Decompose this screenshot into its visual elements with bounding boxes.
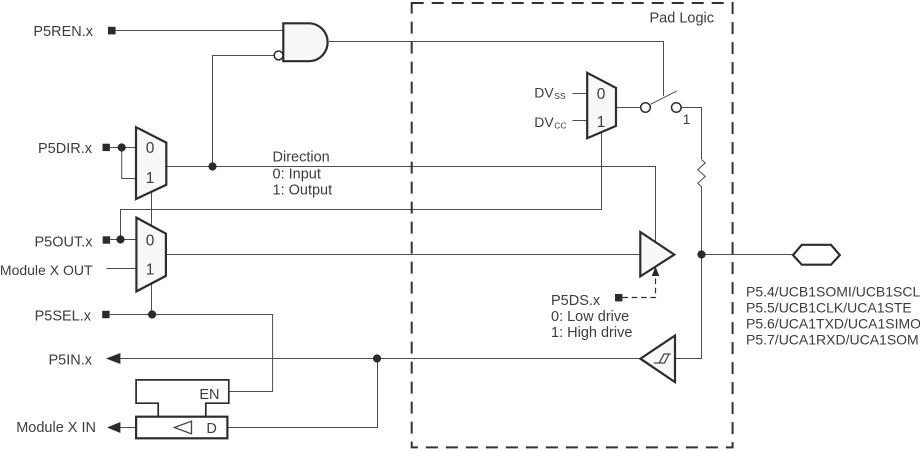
svg-text:P5DS.x: P5DS.x bbox=[551, 293, 601, 309]
svg-text:EN: EN bbox=[199, 387, 219, 403]
svg-text:P5.5/UCB1CLK/UCA1STE: P5.5/UCB1CLK/UCA1STE bbox=[746, 300, 912, 316]
svg-text:P5.4/UCB1SOMI/UCB1SCL: P5.4/UCB1SOMI/UCB1SCL bbox=[746, 284, 920, 300]
svg-text:P5OUT.x: P5OUT.x bbox=[34, 234, 93, 250]
svg-text:Module X OUT: Module X OUT bbox=[0, 262, 93, 278]
svg-text:DV: DV bbox=[534, 85, 554, 101]
svg-text:P5SEL.x: P5SEL.x bbox=[35, 308, 92, 324]
svg-text:DV: DV bbox=[534, 114, 554, 130]
svg-text:P5.7/UCA1RXD/UCA1SOMI: P5.7/UCA1RXD/UCA1SOMI bbox=[746, 332, 920, 348]
svg-text:1: 1 bbox=[683, 111, 691, 127]
svg-text:Module X IN: Module X IN bbox=[16, 420, 96, 436]
svg-text:1: 1 bbox=[597, 114, 606, 131]
svg-text:1: 1 bbox=[146, 262, 155, 279]
svg-text:D: D bbox=[206, 421, 216, 437]
svg-text:0: 0 bbox=[146, 140, 155, 157]
svg-text:SS: SS bbox=[554, 91, 566, 101]
svg-text:Direction: Direction bbox=[273, 150, 330, 166]
svg-text:P5REN.x: P5REN.x bbox=[33, 24, 93, 40]
svg-text:Pad Logic: Pad Logic bbox=[650, 10, 715, 26]
svg-text:0: Input: 0: Input bbox=[273, 167, 321, 183]
svg-text:1: High drive: 1: High drive bbox=[551, 325, 632, 341]
svg-text:CC: CC bbox=[554, 120, 566, 130]
svg-text:P5IN.x: P5IN.x bbox=[48, 352, 92, 368]
svg-text:1: 1 bbox=[146, 170, 155, 187]
svg-text:0: 0 bbox=[146, 233, 155, 250]
svg-text:0: 0 bbox=[597, 86, 606, 103]
svg-text:P5.6/UCA1TXD/UCA1SIMO: P5.6/UCA1TXD/UCA1SIMO bbox=[746, 316, 920, 332]
svg-text:0: Low drive: 0: Low drive bbox=[551, 309, 629, 325]
svg-text:P5DIR.x: P5DIR.x bbox=[38, 141, 93, 157]
svg-text:1: Output: 1: Output bbox=[273, 183, 333, 199]
